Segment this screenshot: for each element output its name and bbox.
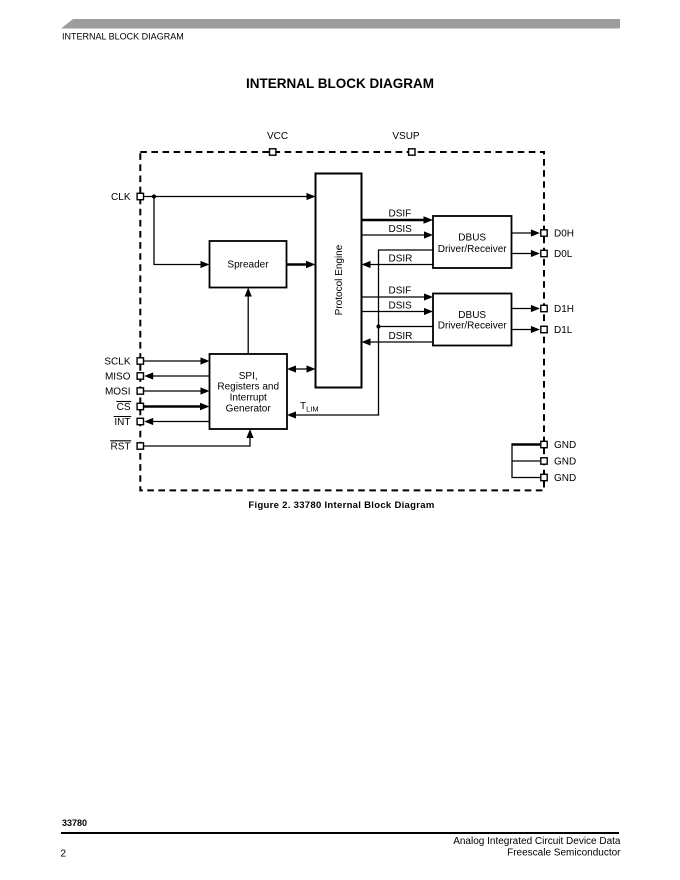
block DBUS Driver/Receiver 1 [433, 216, 512, 268]
svg-text:GND: GND [554, 473, 576, 484]
pin MISO [137, 373, 143, 379]
svg-text:Analog Integrated Circuit Devi: Analog Integrated Circuit Device Data [453, 836, 621, 847]
pin CLK [137, 193, 143, 199]
pin CS [137, 403, 143, 409]
wire CLK branch to Spreader [154, 197, 202, 265]
pin GND2 [541, 458, 547, 464]
dashed boundary box [140, 152, 544, 490]
svg-text:DSIF: DSIF [389, 208, 412, 219]
block SPI Registers and Interrupt Generator [210, 354, 288, 429]
pin RST [137, 443, 143, 449]
svg-text:Driver/Receiver: Driver/Receiver [438, 244, 508, 255]
wire DSIS2 [362, 311, 426, 313]
wire GND vertical bus [511, 443, 513, 478]
block Spreader [210, 241, 287, 288]
pin D1L [541, 326, 547, 332]
wire MISO output [153, 375, 210, 377]
pin D0H [541, 230, 547, 236]
wire D0L output [512, 253, 532, 255]
svg-text:Spreader: Spreader [227, 260, 269, 271]
pin D0L [541, 250, 547, 256]
svg-text:DSIR: DSIR [389, 331, 413, 342]
header bar [61, 19, 620, 29]
svg-text:33780: 33780 [62, 818, 87, 828]
wire D1L output [512, 329, 532, 331]
svg-text:TLIM: TLIM [300, 401, 319, 414]
svg-text:RST: RST [111, 441, 131, 452]
wire INT output [153, 421, 210, 423]
svg-text:DBUS: DBUS [458, 233, 486, 244]
wire TLIM tap2 [379, 326, 434, 328]
wire CS input (thick) [144, 405, 201, 408]
pin VSUP [409, 149, 415, 155]
pin SCLK [137, 358, 143, 364]
svg-text:D0H: D0H [554, 229, 574, 240]
svg-text:DSIR: DSIR [389, 253, 413, 264]
pin GND1 [541, 441, 547, 447]
svg-text:MOSI: MOSI [105, 387, 131, 398]
svg-text:DSIS: DSIS [389, 300, 413, 311]
svg-text:CS: CS [117, 402, 131, 413]
wire D0H output [512, 232, 532, 234]
svg-text:INT: INT [114, 417, 130, 428]
svg-text:INTERNAL BLOCK DIAGRAM: INTERNAL BLOCK DIAGRAM [246, 76, 434, 91]
svg-text:CLK: CLK [111, 192, 131, 203]
svg-text:Freescale Semiconductor: Freescale Semiconductor [507, 847, 621, 858]
wire TLIM collector [296, 250, 434, 415]
wire DSIF1 (thick) [362, 219, 426, 222]
svg-text:SPI,: SPI, [239, 371, 258, 382]
svg-text:VCC: VCC [267, 131, 288, 142]
svg-text:D1H: D1H [554, 304, 574, 315]
wire DSIR2 [370, 341, 433, 343]
wire MOSI input [144, 390, 202, 392]
wire GND3 [512, 477, 540, 479]
svg-text:SCLK: SCLK [104, 357, 130, 368]
svg-text:DSIS: DSIS [389, 224, 413, 235]
block DBUS Driver/Receiver 2 [433, 294, 512, 346]
wire RST input [144, 438, 250, 447]
pin VCC [270, 149, 276, 155]
svg-text:Generator: Generator [226, 404, 272, 415]
wire SCLK input [144, 360, 202, 362]
wire GND1 (thick) [512, 443, 540, 446]
svg-text:VSUP: VSUP [392, 131, 420, 142]
pin GND3 [541, 474, 547, 480]
svg-text:D0L: D0L [554, 249, 573, 260]
svg-text:Figure 2. 33780 Internal Block: Figure 2. 33780 Internal Block Diagram [248, 500, 434, 511]
node TLIM junction [376, 324, 380, 328]
svg-text:Protocol Engine: Protocol Engine [334, 244, 345, 315]
svg-text:MISO: MISO [105, 372, 131, 383]
wire CLK to Protocol Engine [144, 196, 308, 198]
svg-text:2: 2 [61, 848, 67, 859]
svg-text:Interrupt: Interrupt [230, 393, 267, 404]
wire D1H output [512, 308, 532, 310]
svg-text:GND: GND [554, 457, 576, 468]
pin INT [137, 418, 143, 424]
wire DSIF2 [362, 296, 426, 298]
pin MOSI [137, 388, 143, 394]
wire DSIS1 [362, 234, 426, 236]
block Protocol Engine [316, 174, 362, 388]
wire GND2 [512, 460, 540, 462]
svg-text:Driver/Receiver: Driver/Receiver [438, 320, 508, 331]
svg-text:D1L: D1L [554, 325, 573, 336]
wire SPI to Spreader (up arrow) [247, 296, 249, 354]
svg-text:INTERNAL BLOCK DIAGRAM: INTERNAL BLOCK DIAGRAM [62, 32, 184, 42]
wire SPI to Protocol Engine (double arrow) [294, 368, 309, 370]
wire DSIR1 [370, 264, 433, 266]
footer rule [61, 832, 619, 834]
pin D1H [541, 305, 547, 311]
svg-text:DSIF: DSIF [389, 286, 412, 297]
svg-text:GND: GND [554, 440, 576, 451]
svg-text:Registers and: Registers and [217, 382, 279, 393]
wire Spreader to Protocol Engine (thick) [287, 263, 307, 266]
node CLK junction [152, 194, 156, 198]
